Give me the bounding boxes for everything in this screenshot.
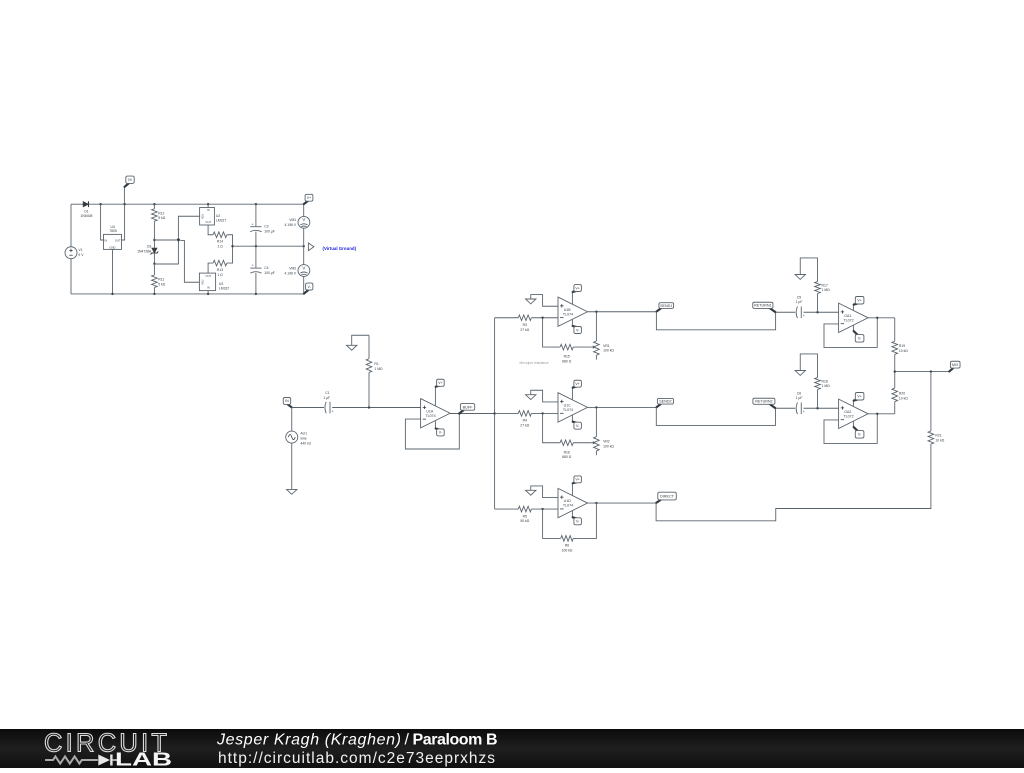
svg-text:1N5408: 1N5408: [81, 214, 93, 218]
svg-text:U1A: U1A: [426, 409, 434, 413]
svg-text:TL072: TL072: [843, 318, 853, 322]
svg-text:V+: V+: [857, 395, 862, 399]
svg-text:VM1: VM1: [289, 218, 296, 222]
svg-text:MIX: MIX: [952, 363, 959, 367]
svg-text:1 MΩ: 1 MΩ: [374, 367, 383, 371]
svg-text:C6: C6: [797, 391, 801, 395]
svg-text:C1: C1: [325, 391, 329, 395]
svg-text:SEND1: SEND1: [660, 304, 672, 308]
regulator U2 LM317: [200, 204, 227, 225]
svg-text:TL074: TL074: [563, 504, 573, 508]
svg-text:R5: R5: [523, 514, 527, 518]
net flag RETURN2: [753, 398, 775, 408]
svg-text:R21: R21: [935, 434, 941, 438]
svg-text:Min wiper resistance: Min wiper resistance: [520, 361, 549, 365]
svg-text:100 µF: 100 µF: [264, 229, 275, 233]
wire to U2 ADJ: [178, 216, 199, 237]
svg-text:680 Ω: 680 Ω: [562, 455, 572, 459]
svg-text:SEND2: SEND2: [659, 400, 671, 404]
V+ V- flags OA2: [852, 400, 854, 406]
svg-text:sine: sine: [300, 437, 306, 441]
resistor R18 with ground: [800, 354, 830, 408]
svg-text:1N4728A: 1N4728A: [137, 249, 152, 253]
resistor R14: [208, 225, 232, 248]
svg-text:440 Hz: 440 Hz: [300, 441, 311, 445]
svg-text:TL072: TL072: [843, 414, 853, 418]
svg-text:1 Ω: 1 Ω: [217, 244, 223, 248]
ground for U1D + input: [526, 486, 558, 498]
svg-text:1 Ω: 1 Ω: [217, 273, 223, 277]
svg-text:+: +: [252, 222, 254, 226]
svg-text:R17: R17: [822, 283, 828, 287]
svg-text:27 kΩ: 27 kΩ: [520, 423, 529, 427]
resistor R4: [495, 411, 558, 428]
wire SEND1 to RETURN1 loop: [656, 312, 775, 330]
svg-text:TL074: TL074: [425, 414, 435, 418]
svg-text:4.196 V: 4.196 V: [284, 223, 296, 227]
resistor R21: [928, 372, 945, 445]
svg-text:D1: D1: [84, 210, 88, 214]
voltmeter VM2: [284, 246, 309, 294]
capacitor C5: [796, 295, 805, 318]
svg-text:R16: R16: [564, 450, 570, 454]
wire D3 to regulators junction: [154, 239, 176, 241]
svg-text:LM317: LM317: [216, 219, 226, 223]
potentiometer VR1: [591, 312, 614, 360]
resistor R11: [152, 264, 166, 294]
ground for R18: [795, 371, 805, 376]
svg-text:R14: R14: [217, 240, 223, 244]
wire OA1 output: [868, 317, 895, 319]
svg-text:(Virtual Ground): (Virtual Ground): [323, 246, 357, 251]
svg-text:R15: R15: [564, 355, 570, 359]
svg-text:IN: IN: [207, 286, 210, 290]
wire U1D output: [588, 502, 657, 504]
svg-text:ADJ: ADJ: [200, 279, 204, 285]
svg-text:1 MΩ: 1 MΩ: [822, 384, 831, 388]
ground for R1: [347, 335, 370, 350]
wire OA1 feedback: [824, 318, 877, 348]
regulator U4 7805: [101, 204, 125, 294]
svg-text:R12: R12: [158, 211, 164, 215]
wire bottom rail: [71, 293, 304, 295]
svg-text:VR2: VR2: [603, 440, 610, 444]
svg-text:U1D: U1D: [564, 499, 572, 503]
svg-text:5 kΩ: 5 kΩ: [158, 282, 166, 286]
net flag DIRECT: [656, 492, 676, 503]
source V1: [65, 204, 84, 294]
wire SEND2 to RETURN2 loop: [656, 407, 775, 425]
svg-text:D3: D3: [147, 245, 151, 249]
svg-text:LAB: LAB: [115, 750, 172, 769]
svg-text:OUT: OUT: [115, 238, 121, 242]
svg-text:1 MΩ: 1 MΩ: [822, 288, 831, 292]
V+ V- flags U1D: [571, 483, 573, 495]
logo resistor-diode glyph: [45, 755, 117, 766]
svg-text:IN: IN: [285, 399, 289, 403]
svg-text:R3: R3: [523, 323, 527, 327]
svg-text:BUFF: BUFF: [463, 405, 474, 409]
svg-text:C3: C3: [264, 225, 268, 229]
capacitor C6: [796, 391, 805, 414]
svg-text:LM337: LM337: [219, 287, 229, 291]
svg-text:TL074: TL074: [563, 408, 573, 412]
svg-text:V+: V+: [438, 381, 443, 385]
svg-text:V+: V+: [307, 196, 312, 200]
svg-text:IN: IN: [105, 238, 108, 242]
svg-text:DIRECT: DIRECT: [660, 494, 674, 498]
svg-text:OUT: OUT: [206, 274, 212, 278]
svg-text:R13: R13: [217, 268, 223, 272]
net flag SEND1: [657, 303, 674, 312]
svg-text:TL074: TL074: [563, 312, 573, 316]
svg-text:R4: R4: [523, 419, 527, 423]
net flag MIX: [949, 361, 960, 371]
svg-text:VR1: VR1: [603, 344, 610, 348]
capacitor C4: [250, 246, 275, 294]
net flag V-: [304, 283, 313, 294]
diode D1: [81, 201, 93, 218]
svg-text:U3: U3: [219, 282, 223, 286]
resistor R5: [495, 506, 558, 523]
svg-text:10 kΩ: 10 kΩ: [935, 438, 944, 442]
svg-text:U4: U4: [111, 225, 115, 229]
svg-text:100 kΩ: 100 kΩ: [562, 548, 573, 552]
op-amp OA2: [839, 399, 869, 428]
svg-text:AU1: AU1: [300, 432, 307, 436]
resistor R6 feedback: [543, 503, 597, 552]
svg-text:Paraloom B: Paraloom B: [413, 732, 498, 749]
wire OA2 feedback: [824, 414, 877, 444]
resistor R1 with ground: [366, 335, 383, 407]
svg-text:+: +: [332, 409, 334, 413]
svg-text:9 V: 9 V: [78, 253, 84, 257]
svg-text:27 kΩ: 27 kΩ: [520, 328, 529, 332]
resistor R3: [495, 315, 558, 332]
svg-text:10 kΩ: 10 kΩ: [899, 396, 908, 400]
svg-text:5 kΩ: 5 kΩ: [158, 216, 166, 220]
wire U4 GND: [112, 249, 114, 294]
wire U4 OUT: [122, 204, 125, 240]
V+ V- flags U1A: [434, 387, 436, 406]
svg-text:V+: V+: [575, 478, 580, 482]
svg-text:C5: C5: [797, 295, 801, 299]
resistor R12: [152, 204, 166, 240]
net flag 0V: [124, 176, 134, 204]
svg-text:V: V: [302, 217, 305, 222]
svg-text:C4: C4: [264, 266, 268, 270]
resistor R19: [892, 318, 908, 372]
svg-text:Jesper Kragh (Kraghen): Jesper Kragh (Kraghen): [216, 732, 401, 749]
wire top rail: [71, 203, 83, 205]
svg-text:4.196 V: 4.196 V: [284, 271, 296, 275]
svg-text:http://circuitlab.com/c2e73eep: http://circuitlab.com/c2e73eeprxhzs: [218, 750, 495, 767]
net flag BUFF: [460, 404, 475, 414]
svg-text:OA2: OA2: [844, 410, 851, 414]
svg-text:V+: V+: [575, 382, 580, 386]
svg-text:+: +: [252, 264, 254, 268]
svg-text:R6: R6: [565, 544, 569, 548]
wire RETURN2 row: [776, 407, 796, 409]
op-amp U1B: [558, 297, 588, 326]
svg-text:U1B: U1B: [564, 308, 572, 312]
svg-text:R11: R11: [158, 278, 164, 282]
svg-text:1 µF: 1 µF: [796, 396, 803, 400]
svg-text:100 kΩ: 100 kΩ: [603, 349, 614, 353]
source AU1: [286, 408, 312, 446]
svg-text:7805: 7805: [109, 229, 117, 233]
svg-text:1 µF: 1 µF: [323, 396, 330, 400]
svg-text:GND: GND: [110, 245, 116, 249]
op-amp OA1: [839, 303, 869, 332]
svg-text:V+: V+: [857, 299, 862, 303]
V+ V- flags OA1: [852, 304, 854, 310]
resistor R13: [208, 246, 232, 277]
wire U1B output: [588, 311, 657, 313]
resistor R16: [543, 413, 592, 459]
capacitor C3: [250, 204, 275, 246]
svg-text:V: V: [302, 265, 305, 270]
wire U1A output: [450, 413, 495, 415]
wire distribution vertical: [494, 318, 496, 509]
net flag SEND2: [657, 398, 674, 407]
svg-text:RETURN2: RETURN2: [755, 400, 772, 404]
svg-text:R19: R19: [899, 344, 905, 348]
svg-text:IN: IN: [207, 208, 210, 212]
wire MIX row: [895, 371, 949, 373]
resistor R17 with ground: [800, 258, 830, 312]
capacitor C1: [323, 391, 333, 414]
regulator U3 LM337: [199, 273, 229, 294]
svg-text:100 kΩ: 100 kΩ: [603, 444, 614, 448]
wire OA2 output: [868, 413, 895, 415]
svg-text:OUT: OUT: [206, 220, 212, 224]
net flag IN: [283, 398, 291, 408]
svg-text:+: +: [803, 410, 805, 414]
V+ V- flags U1B: [571, 292, 573, 304]
svg-text:50 kΩ: 50 kΩ: [520, 519, 529, 523]
node D3 junctions: [153, 239, 155, 241]
svg-text:R1: R1: [374, 362, 378, 366]
svg-text:R20: R20: [899, 392, 905, 396]
svg-text:RETURN1: RETURN1: [754, 304, 771, 308]
resistor R15: [543, 318, 592, 364]
svg-text:U1C: U1C: [564, 404, 572, 408]
op-amp U1A: [421, 399, 451, 428]
resistor R20: [892, 372, 908, 414]
ground for U1B + input: [526, 295, 558, 307]
svg-text:V1: V1: [78, 248, 82, 252]
wire DIRECT to R21: [656, 444, 931, 521]
V+ V- flags U1C: [571, 387, 573, 399]
svg-text:/: /: [405, 732, 410, 749]
svg-text:V+: V+: [575, 286, 580, 290]
op-amp U1D: [558, 488, 588, 517]
wire to U3 ADJ: [180, 240, 199, 282]
svg-text:U2: U2: [216, 214, 220, 218]
virtual ground probe flag: [308, 243, 314, 251]
ground for R17: [795, 275, 805, 280]
zener diode D3: [137, 240, 158, 264]
wire U1C output: [588, 406, 657, 408]
svg-text:10 kΩ: 10 kΩ: [899, 349, 908, 353]
voltmeter VM1: [284, 204, 309, 246]
svg-text:ADJ: ADJ: [200, 213, 204, 219]
svg-text:0V: 0V: [128, 178, 133, 182]
wire input row: [292, 407, 324, 409]
net flag RETURN1: [753, 302, 776, 312]
svg-text:+: +: [803, 314, 805, 318]
wire U4 IN: [101, 204, 104, 240]
wire mid rail virtual ground: [233, 245, 304, 247]
wire RETURN1 row: [776, 311, 796, 313]
op-amp U1C: [558, 393, 588, 422]
svg-text:680 Ω: 680 Ω: [562, 359, 572, 363]
svg-text:OA1: OA1: [844, 314, 851, 318]
svg-text:1 µF: 1 µF: [796, 300, 803, 304]
wire U1A feedback: [405, 414, 459, 449]
potentiometer VR2: [591, 407, 614, 455]
node junction top rail: [99, 203, 101, 205]
ground for U1C + input: [526, 390, 558, 402]
svg-text:100 µF: 100 µF: [264, 271, 275, 275]
svg-text:VM2: VM2: [289, 266, 296, 270]
ground for AU1: [287, 443, 297, 494]
net flag V+: [304, 194, 313, 204]
svg-text:R18: R18: [822, 379, 828, 383]
